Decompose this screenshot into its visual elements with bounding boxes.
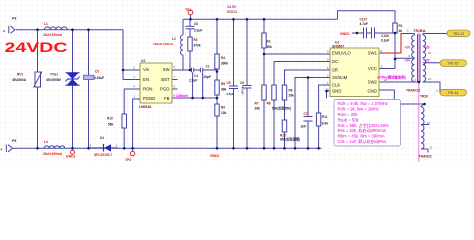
svg-text:TR1B1L: TR1B1L [414,29,427,33]
svg-text:TRAN-22: TRAN-22 [406,89,420,93]
svg-text:R11: R11 [322,115,328,119]
svg-text:SW2: SW2 [368,80,378,85]
svg-text:R8: R8 [267,102,271,106]
svg-text:Rclk = 9k, fsw = 1MHz: Rclk = 9k, fsw = 1MHz [338,107,379,112]
svg-text:29k: 29k [255,107,261,111]
svg-text:DFLS2100-7: DFLS2100-7 [94,153,112,157]
svg-text:15: 15 [428,51,432,55]
svg-text:100uH,520mA: 100uH,520mA [153,42,174,46]
svg-text:DC: DC [332,59,338,64]
svg-text:R3: R3 [194,38,198,42]
svg-text:10pF: 10pF [204,75,211,79]
svg-text:+20: +20 [405,46,411,50]
svg-text:SW: SW [163,67,170,72]
svg-text:P4: P4 [12,139,16,143]
svg-text:GND1: GND1 [210,154,220,158]
svg-text:SW1: SW1 [368,51,378,56]
svg-text:PGO: PGO [160,86,170,91]
svg-text:w=5%(调试稳定用): w=5%(调试稳定用) [376,74,406,79]
svg-text:C6: C6 [194,22,198,26]
svg-text:Rss = 20k, 软启动290V/us: Rss = 20k, 软启动290V/us [338,127,386,133]
svg-text:2.2uF: 2.2uF [194,29,202,33]
svg-text:CLK: CLK [332,83,340,88]
svg-text:+20: +20 [424,46,430,50]
svg-text:Rdc = 55k, 占空比45%,50%: Rdc = 55k, 占空比45%,50% [338,122,390,128]
svg-text:390k: 390k [221,62,228,66]
svg-text:R10: R10 [107,117,113,121]
svg-text:R1: R1 [399,24,403,28]
svg-text:SN6507: SN6507 [332,45,344,49]
svg-text:L3: L3 [44,140,48,144]
svg-text:4.7uF: 4.7uF [241,87,245,95]
svg-text:R9: R9 [221,106,225,110]
svg-text:TR1-13: TR1-13 [453,32,464,36]
svg-text:RON: RON [143,86,152,91]
svg-text:Css = 1uF, 默认软启动Rss: Css = 1uF, 默认软启动Rss [338,138,387,144]
svg-text:C107: C107 [360,18,368,22]
svg-text:U2: U2 [141,59,145,63]
svg-text:24VDC: 24VDC [5,39,68,55]
svg-text:14.5V: 14.5V [227,5,237,9]
svg-text:0.1uF: 0.1uF [381,39,389,43]
svg-text:C3: C3 [95,70,99,74]
svg-text:R7: R7 [255,102,259,106]
svg-text:EN/UVLO: EN/UVLO [332,51,351,56]
svg-text:TP2: TP2 [125,158,131,162]
svg-text:2.2uF: 2.2uF [189,78,197,82]
svg-text:Vin: Vin [143,67,150,72]
svg-text:13k: 13k [221,111,227,115]
svg-text:12: 12 [427,121,431,125]
svg-text:SS/ILIM: SS/ILIM [332,75,348,80]
svg-text:C5: C5 [227,81,231,85]
svg-text:BST: BST [161,77,170,82]
svg-text:VCC: VCC [368,66,377,71]
svg-text:C6: C6 [240,81,244,85]
svg-text:TRAN22: TRAN22 [419,155,432,159]
svg-text:Rset = 20k: Rset = 20k [338,112,359,117]
svg-text:FB: FB [164,96,170,101]
svg-text:L1: L1 [44,22,48,26]
svg-text:Rsub = 50k: Rsub = 50k [338,117,360,122]
svg-text:1nF: 1nF [301,124,307,128]
svg-text:C7: C7 [304,112,308,116]
svg-text:D4: D4 [100,136,104,140]
svg-text:1200mV: 1200mV [176,94,189,98]
svg-text:+20: +20 [405,59,411,63]
svg-text:SR: SR [332,68,338,73]
svg-text:+20: +20 [424,59,430,63]
svg-text:13: 13 [428,77,432,81]
svg-text:1k: 1k [399,29,403,33]
svg-text:TR1-14: TR1-14 [448,91,459,95]
svg-text:R2: R2 [267,40,271,44]
svg-text:GND1: GND1 [66,155,76,159]
svg-text:4.7uF: 4.7uF [360,22,368,26]
svg-text:40V,600W: 40V,600W [46,78,61,82]
svg-text:GND: GND [368,89,377,94]
svg-text:39k: 39k [267,45,273,49]
svg-text:R6: R6 [289,89,293,93]
svg-text:Rclk = 9.0k, fsw = 1.07MHz: Rclk = 9.0k, fsw = 1.07MHz [338,101,388,106]
svg-text:4.7uF: 4.7uF [226,92,234,96]
svg-text:39k: 39k [221,88,227,92]
svg-text:22uH,300mA: 22uH,300mA [43,152,63,156]
svg-text:470k: 470k [194,44,201,48]
svg-text:11: 11 [430,146,433,150]
svg-text:EN: EN [143,77,149,82]
svg-text:GND1: GND1 [340,32,350,36]
svg-text:P3: P3 [12,17,16,21]
svg-text:65k(实际调整): 65k(实际调整) [280,137,300,142]
svg-text:PGND: PGND [143,96,155,101]
svg-text:TR1-15: TR1-15 [448,62,459,66]
svg-text:R5: R5 [221,82,225,86]
svg-text:Rilim = 45k, Ilim = 300mA: Rilim = 45k, Ilim = 300mA [338,134,385,139]
svg-text:R4: R4 [221,56,225,60]
svg-text:LM5164: LM5164 [139,105,152,109]
svg-text:22uH,300mA: 22uH,300mA [43,33,63,37]
svg-text:0.33uF: 0.33uF [94,76,104,80]
svg-text:TP1: TP1 [185,8,191,12]
svg-text:9.0k: 9.0k [322,121,328,125]
svg-text:45V,800A: 45V,800A [12,78,27,82]
svg-text:RV1: RV1 [17,73,23,77]
svg-text:GND: GND [332,89,341,94]
svg-text:TR10: TR10 [420,94,428,98]
svg-text:C108: C108 [381,34,389,38]
svg-text:TVS1: TVS1 [50,73,58,77]
svg-text:50k(实际55k): 50k(实际55k) [272,106,291,111]
svg-text:VCC1: VCC1 [227,10,237,14]
svg-text:29k: 29k [289,94,295,98]
svg-text:10: 10 [325,88,329,92]
svg-text:C1: C1 [206,64,210,68]
svg-text:56k: 56k [108,123,114,127]
svg-text:L2: L2 [172,37,176,41]
